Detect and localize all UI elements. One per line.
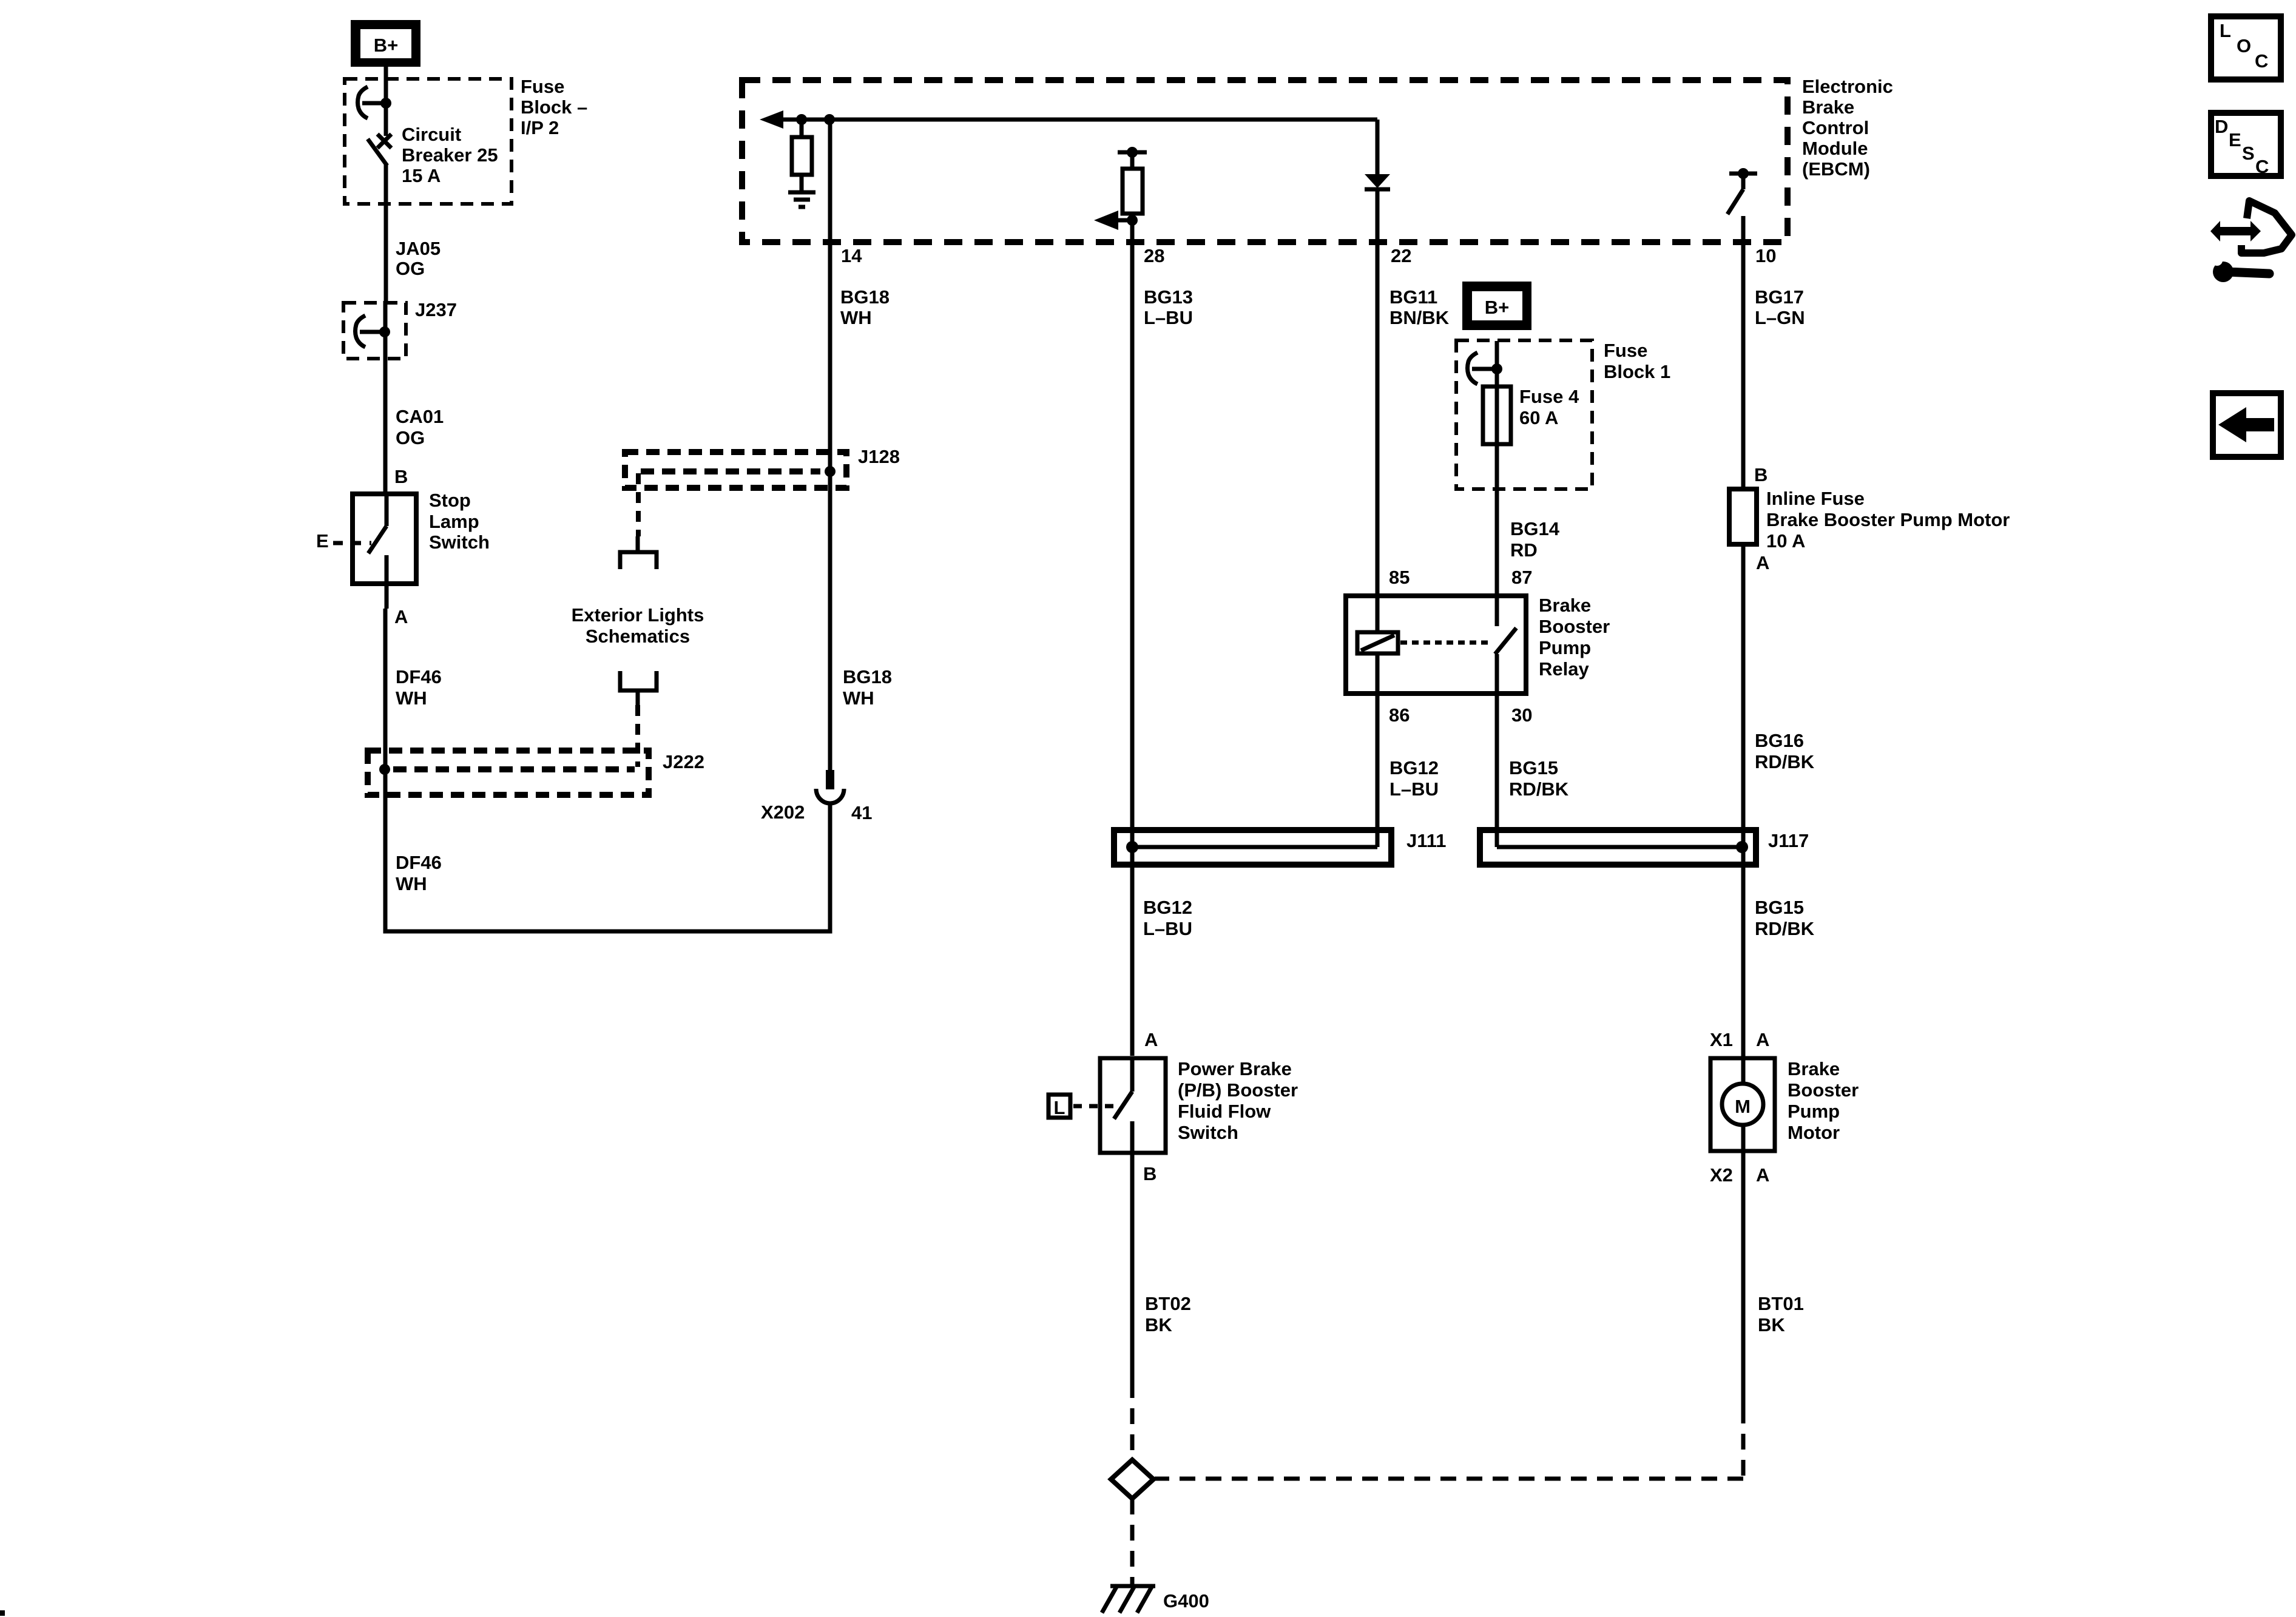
- svg-text:X2: X2: [1710, 1164, 1733, 1186]
- EBCM module dashed outline: [742, 80, 1788, 242]
- svg-text:J111: J111: [1406, 830, 1447, 851]
- in-line harness connector J117: [1480, 830, 1756, 865]
- svg-text:A: A: [1756, 1164, 1769, 1186]
- LOC icon box: [2211, 16, 2281, 79]
- svg-text:Control: Control: [1802, 117, 1869, 138]
- svg-text:BG17: BG17: [1755, 286, 1804, 308]
- svg-text:BG16: BG16: [1755, 730, 1804, 751]
- svg-text:Fuse 4: Fuse 4: [1519, 386, 1579, 407]
- DESC icon box: [2211, 113, 2281, 176]
- toggle/jump icon: wrench: [2213, 262, 2234, 282]
- svg-text:A: A: [1756, 1029, 1769, 1050]
- svg-text:Fuse: Fuse: [521, 76, 564, 97]
- wire BG12 L-BU (relay 86 to J111): [1376, 653, 1380, 847]
- dashed branch wire to exterior lights schematics (upper): [636, 473, 641, 536]
- svg-text:22: 22: [1391, 245, 1411, 266]
- EBCM pin 28 internal arrow (signal out): [1127, 215, 1138, 226]
- wire DF46 WH upper: [383, 609, 388, 931]
- svg-text:A: A: [1144, 1029, 1158, 1050]
- EBCM pin 10 internal switch: [1729, 172, 1757, 176]
- wire BT01 BK (motor X2 to ground splice): [1741, 1180, 1746, 1408]
- svg-text:Brake: Brake: [1539, 595, 1591, 616]
- svg-text:X1: X1: [1710, 1029, 1733, 1050]
- svg-text:85: 85: [1389, 567, 1410, 588]
- connector terminal hook in fuse block 1: [1468, 353, 1478, 384]
- junction dot fuse 4 input: [1491, 363, 1502, 374]
- toggle/jump icon: pointer outline: [2241, 201, 2292, 253]
- page corner mark: [0, 1610, 5, 1616]
- svg-text:41: 41: [851, 802, 872, 823]
- junction dot J128: [825, 466, 836, 477]
- svg-text:Switch: Switch: [1178, 1122, 1238, 1143]
- junction node on bus (pin 14 tap): [824, 114, 835, 125]
- svg-text:Circuit: Circuit: [402, 124, 461, 145]
- svg-text:BG13: BG13: [1144, 286, 1193, 308]
- svg-text:Block –: Block –: [521, 96, 587, 118]
- svg-text:BG15: BG15: [1509, 757, 1558, 778]
- fluid flow switch actuator L in box: [1048, 1095, 1070, 1118]
- svg-text:OG: OG: [396, 258, 425, 279]
- svg-text:J128: J128: [858, 446, 900, 467]
- svg-text:Brake Booster Pump Motor: Brake Booster Pump Motor: [1766, 509, 2010, 530]
- svg-text:C: C: [2255, 50, 2268, 72]
- dashed branch wire to splice J222 (lower): [635, 705, 640, 767]
- svg-text:BG11: BG11: [1389, 286, 1437, 308]
- svg-text:RD: RD: [1510, 539, 1538, 561]
- B+ power symbol (battery positive feed, left): [351, 20, 420, 67]
- wire BG15 RD/BK (relay 30 to J117): [1495, 694, 1499, 847]
- wire BT02 BK (switch B to ground splice): [1130, 1180, 1135, 1382]
- svg-text:G400: G400: [1163, 1590, 1209, 1612]
- svg-text:RD/BK: RD/BK: [1755, 918, 1815, 939]
- svg-text:B: B: [1143, 1163, 1156, 1184]
- wire BG16 RD/BK (inline fuse to J117): [1741, 544, 1746, 847]
- svg-text:A: A: [1756, 552, 1769, 573]
- svg-text:Pump: Pump: [1539, 637, 1591, 658]
- svg-text:Switch: Switch: [429, 532, 490, 553]
- svg-text:Fuse: Fuse: [1604, 340, 1647, 361]
- svg-text:(EBCM): (EBCM): [1802, 158, 1870, 180]
- stop lamp switch contact blade: [385, 491, 389, 526]
- svg-text:RD/BK: RD/BK: [1755, 751, 1815, 772]
- svg-text:60 A: 60 A: [1519, 407, 1558, 428]
- connector terminal hook J237: [356, 316, 366, 347]
- svg-text:S: S: [2242, 143, 2255, 164]
- wire BG17 L-GN (pin 10 to inline fuse): [1741, 236, 1746, 489]
- B+ power symbol (battery positive feed, fuse block 1): [1462, 282, 1531, 330]
- splice J128 inner dashed bus: [641, 468, 820, 474]
- svg-text:15 A: 15 A: [402, 165, 441, 186]
- wire BG15 RD/BK (J117 to pump motor): [1741, 847, 1746, 1084]
- splice pack J128 dashed outline: [625, 452, 846, 488]
- relay actuation dashed link: [1400, 641, 1491, 645]
- svg-text:Stop: Stop: [429, 490, 471, 511]
- svg-text:WH: WH: [396, 687, 427, 709]
- in-line harness connector J111: [1114, 830, 1391, 865]
- svg-text:Pump: Pump: [1788, 1101, 1840, 1122]
- back arrow icon box: [2213, 393, 2281, 457]
- connector terminal hook in fuse block I/P 2: [358, 87, 368, 118]
- junction node on bus (resistor tap): [796, 114, 807, 125]
- wire JA05 OG: [384, 237, 388, 301]
- svg-text:30: 30: [1511, 704, 1532, 726]
- svg-text:B: B: [1754, 464, 1768, 485]
- svg-text:87: 87: [1511, 567, 1532, 588]
- exterior lights lower off-page stub: [620, 671, 657, 690]
- svg-text:BK: BK: [1758, 1314, 1785, 1335]
- svg-text:DF46: DF46: [396, 666, 442, 687]
- svg-text:WH: WH: [843, 687, 874, 709]
- svg-text:Power Brake: Power Brake: [1178, 1058, 1292, 1079]
- svg-text:Lamp: Lamp: [429, 511, 479, 532]
- wire BG13 L-BU (pin 28 to J111): [1130, 236, 1135, 1056]
- svg-text:B+: B+: [374, 35, 399, 56]
- svg-text:E: E: [316, 530, 329, 552]
- relay contact blade: [1495, 593, 1499, 626]
- svg-text:Inline Fuse: Inline Fuse: [1766, 488, 1865, 509]
- svg-text:Booster: Booster: [1539, 616, 1610, 637]
- exterior lights upper off-page stub: [636, 536, 640, 552]
- svg-text:BG18: BG18: [840, 286, 890, 308]
- dashed ground bus to splice diamond: [1155, 1477, 1743, 1481]
- wire CA01 OG: [383, 301, 388, 491]
- stop lamp switch box: [353, 494, 416, 584]
- svg-text:Brake: Brake: [1788, 1058, 1840, 1079]
- EBCM internal bus wire with left arrow: [780, 118, 1377, 122]
- svg-text:B: B: [394, 466, 408, 487]
- svg-text:J237: J237: [415, 299, 457, 320]
- svg-text:Schematics: Schematics: [586, 626, 690, 647]
- wire BG11 BN/BK (pin 22 to relay 85): [1376, 236, 1380, 632]
- svg-text:B+: B+: [1485, 297, 1510, 318]
- svg-text:E: E: [2229, 129, 2241, 150]
- svg-text:BG18: BG18: [843, 666, 892, 687]
- toggle/jump icon: double arrow: [2210, 221, 2261, 241]
- svg-text:WH: WH: [396, 873, 427, 894]
- svg-text:L–BU: L–BU: [1144, 307, 1193, 328]
- resistor R (EBCM internal pull-down): [800, 120, 804, 137]
- svg-text:Electronic: Electronic: [1802, 76, 1893, 97]
- svg-text:Relay: Relay: [1539, 658, 1589, 680]
- svg-text:BT02: BT02: [1145, 1293, 1191, 1314]
- svg-text:Exterior Lights: Exterior Lights: [572, 604, 704, 626]
- junction dot J222: [379, 764, 390, 775]
- svg-text:Booster: Booster: [1788, 1079, 1859, 1101]
- svg-text:BG15: BG15: [1755, 897, 1804, 918]
- power brake booster fluid flow switch box: [1100, 1058, 1166, 1153]
- svg-text:BT01: BT01: [1758, 1293, 1804, 1314]
- svg-text:BG12: BG12: [1389, 757, 1439, 778]
- svg-text:J222: J222: [663, 751, 704, 772]
- brake booster pump motor box: [1710, 1058, 1775, 1151]
- svg-text:I/P 2: I/P 2: [521, 117, 559, 138]
- fuse block I/P 2 dashed outline: [345, 79, 512, 204]
- in-line connector J237 dashed box: [343, 303, 406, 359]
- relay coil: [1357, 632, 1398, 653]
- svg-text:L–BU: L–BU: [1143, 918, 1192, 939]
- wire from B+ into fuse block: [384, 66, 388, 103]
- svg-text:10 A: 10 A: [1766, 530, 1805, 552]
- svg-text:D: D: [2215, 116, 2228, 137]
- svg-text:86: 86: [1389, 704, 1410, 726]
- svg-text:28: 28: [1144, 245, 1164, 266]
- dashed wire diamond to ground G400: [1130, 1499, 1135, 1585]
- fluid flow switch contact blade: [1130, 1058, 1135, 1092]
- svg-text:WH: WH: [840, 307, 872, 328]
- svg-text:Module: Module: [1802, 138, 1868, 159]
- svg-text:L: L: [1054, 1097, 1065, 1118]
- svg-text:BG14: BG14: [1510, 518, 1560, 539]
- svg-text:CA01: CA01: [396, 406, 444, 427]
- wire from B+ through fuse 4: [1495, 341, 1499, 593]
- svg-text:X202: X202: [761, 802, 805, 823]
- ground splice diamond: [1111, 1460, 1153, 1499]
- svg-text:RD/BK: RD/BK: [1509, 778, 1569, 800]
- svg-text:Breaker 25: Breaker 25: [402, 144, 498, 166]
- svg-text:(P/B) Booster: (P/B) Booster: [1178, 1079, 1298, 1101]
- motor winding circle M: [1722, 1084, 1763, 1125]
- connector X202 pin: [826, 770, 834, 789]
- svg-text:JA05: JA05: [396, 238, 441, 259]
- bottom return wire from stop lamp switch to X202: [385, 805, 830, 931]
- svg-text:A: A: [394, 606, 408, 627]
- svg-text:Brake: Brake: [1802, 96, 1854, 118]
- svg-text:L–BU: L–BU: [1389, 778, 1439, 800]
- svg-text:10: 10: [1755, 245, 1776, 266]
- svg-text:BN/BK: BN/BK: [1389, 307, 1450, 328]
- svg-text:C: C: [2255, 156, 2269, 177]
- ground G400 chassis symbol: [1110, 1584, 1155, 1588]
- svg-text:OG: OG: [396, 427, 425, 448]
- svg-text:L: L: [2220, 20, 2231, 41]
- connector X202 socket arc: [816, 789, 844, 803]
- splice J222 inner dashed bus: [393, 766, 635, 772]
- EBCM internal ground symbol: [788, 191, 815, 195]
- junction dot at circuit breaker input: [380, 98, 391, 109]
- svg-text:BK: BK: [1145, 1314, 1172, 1335]
- fuse block 1 dashed outline: [1456, 340, 1592, 489]
- svg-text:L–GN: L–GN: [1755, 307, 1805, 328]
- EBCM pin 22 diode: [1376, 120, 1380, 175]
- svg-text:M: M: [1735, 1096, 1751, 1117]
- junction dot J237: [379, 326, 390, 337]
- svg-text:BG12: BG12: [1143, 897, 1192, 918]
- wire BG18 WH from EBCM pin 14 down to X202: [828, 120, 832, 770]
- svg-text:Fluid Flow: Fluid Flow: [1178, 1101, 1271, 1122]
- svg-text:14: 14: [841, 245, 862, 266]
- svg-text:O: O: [2237, 35, 2251, 56]
- svg-text:Motor: Motor: [1788, 1122, 1840, 1143]
- fuse 4 60 A symbol: [1483, 387, 1511, 444]
- splice pack J222 dashed outline: [368, 751, 649, 795]
- EBCM pin 28 sense resistor: [1118, 150, 1147, 155]
- svg-text:J117: J117: [1768, 830, 1809, 851]
- svg-text:Block 1: Block 1: [1604, 361, 1670, 382]
- svg-text:DF46: DF46: [396, 852, 442, 873]
- brake booster pump relay box: [1346, 596, 1526, 694]
- circuit breaker 25 15 A symbol: [384, 103, 388, 136]
